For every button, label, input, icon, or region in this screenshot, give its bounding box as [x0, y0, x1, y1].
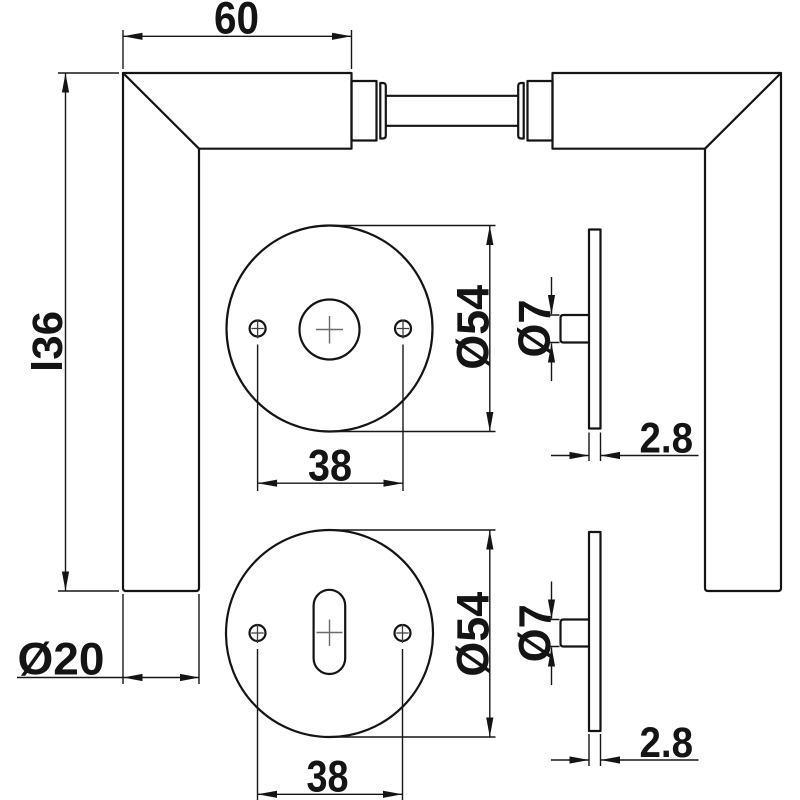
right handle chamfer edge	[705, 73, 781, 149]
side view bottom: screw boss	[561, 620, 590, 647]
rosette bottom keyhole	[314, 590, 346, 674]
dimension O7 bottom: arrow lines	[551, 582, 553, 686]
dimension O54 top: tangent extension lines	[330, 226, 496, 432]
dimension O54 top: arrowheads	[486, 226, 493, 246]
dimension 60: line	[123, 35, 352, 37]
dimension O7 top: arrow lines	[551, 277, 553, 381]
dimension 2.8 top: lines	[551, 455, 699, 457]
dimension O7 bottom: arrowheads	[548, 600, 555, 620]
svg-text:38: 38	[307, 752, 349, 800]
dimension 2.8 bottom: lines	[551, 759, 699, 761]
dimension 2.8 bottom: extension lines	[589, 734, 601, 766]
rosette bottom left screw hole	[250, 625, 266, 641]
dimension 2.8 bottom: arrowheads	[570, 756, 590, 763]
svg-text:Ø54: Ø54	[448, 284, 499, 370]
dimension O7 top: extension lines	[546, 315, 560, 343]
left handle neck	[352, 81, 377, 141]
left handle lever (top view)	[123, 73, 352, 591]
right handle neck	[528, 81, 553, 141]
rosette top (front view)	[227, 226, 433, 432]
dimension 136: line	[65, 73, 67, 591]
svg-text:Ø20: Ø20	[18, 634, 105, 685]
dimension 38 bottom: arrowheads	[258, 791, 278, 798]
dimension O7 top: arrowheads	[548, 295, 555, 315]
dimension 2.8 top: arrowheads	[570, 452, 590, 459]
side view top: screw boss	[561, 315, 590, 343]
rosette bottom (front view)	[226, 530, 433, 737]
dimension O7 bottom: extension lines	[546, 620, 560, 647]
dimension 2.8 top: extension lines	[589, 433, 601, 462]
dimension O54 bottom: tangent extension lines	[330, 530, 496, 737]
dimension O54 bottom: line	[489, 530, 491, 737]
svg-text:l36: l36	[24, 311, 72, 372]
dimension 38 bottom: line	[258, 793, 403, 795]
right handle lever (top view)	[553, 73, 782, 591]
dimension O54 bottom: arrowheads	[486, 530, 493, 550]
rosette top center cross	[316, 316, 343, 344]
rosette top handle hole	[300, 300, 360, 360]
dimension O20: line	[17, 677, 200, 679]
svg-text:2.8: 2.8	[640, 720, 694, 767]
dimension 136: extension lines	[58, 73, 119, 591]
svg-text:Ø54: Ø54	[448, 591, 499, 677]
right handle collar	[518, 83, 524, 139]
svg-text:2.8: 2.8	[640, 415, 694, 462]
svg-text:Ø7: Ø7	[509, 300, 560, 358]
left handle collar	[380, 83, 386, 139]
dimension O20: arrowheads	[123, 674, 143, 681]
svg-text:60: 60	[214, 0, 259, 44]
rosette bottom center cross	[317, 620, 343, 647]
svg-text:38: 38	[308, 441, 352, 490]
dimension 38 top: line	[258, 482, 403, 484]
dimension 136: arrowheads	[62, 73, 69, 93]
dimension O20: extension lines	[123, 594, 199, 684]
rosette top right screw hole	[395, 321, 411, 337]
dimension O54 top: line	[489, 226, 491, 432]
side view bottom: rosette plate	[589, 532, 601, 731]
dimension 38 top: arrowheads	[258, 480, 278, 487]
svg-text:Ø7: Ø7	[510, 604, 561, 662]
dimension 60: extension lines	[123, 30, 352, 69]
left handle chamfer edge	[123, 73, 199, 149]
dimension 38 top: extension lines	[258, 345, 403, 492]
rosette bottom right screw hole	[395, 625, 411, 641]
dimension 38 bottom: extension lines	[258, 649, 403, 800]
side view top: rosette plate	[589, 230, 601, 429]
spindle rod	[386, 96, 518, 126]
rosette top left screw hole	[250, 321, 266, 337]
dimension 60: arrowheads	[123, 33, 143, 40]
